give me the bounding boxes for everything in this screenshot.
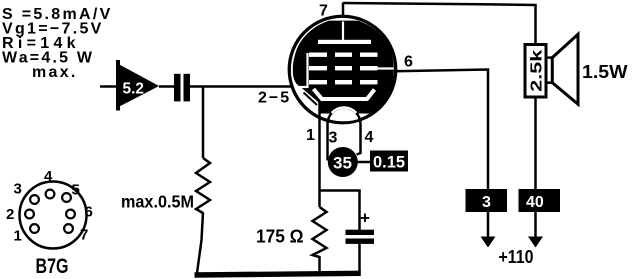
pin hole 7 (64, 224, 73, 233)
socket circle (20, 182, 87, 249)
current box 40 (anode current mA) (519, 189, 561, 212)
wire 2.5k down to 40 box (534, 97, 537, 189)
svg-text:1.5W: 1.5W (582, 62, 628, 82)
heater dome (black arc outside body) (328, 108, 361, 124)
wire 3 box to arrow (487, 212, 490, 246)
anode plate (white bar) (318, 40, 371, 44)
svg-text:+110: +110 (499, 247, 534, 267)
heater value circle 35 (328, 147, 358, 177)
wire input (100, 85, 117, 88)
anode lead from pin 7 (white) (342, 22, 344, 41)
pin hole 2 (25, 210, 34, 219)
wire triangle to capacitor (159, 85, 174, 88)
svg-text:5: 5 (72, 182, 80, 199)
wire capacitor to grid (node g1) (190, 85, 294, 88)
wire 35 to 0.15 (357, 161, 371, 164)
svg-text:3: 3 (14, 181, 22, 198)
pin hole 3 (30, 195, 39, 204)
svg-text:40: 40 (526, 194, 544, 211)
wire cathode branch to capacitor (320, 189, 361, 192)
svg-text:2: 2 (6, 206, 14, 223)
capacitor C2 electrolytic (cathode bypass) (346, 191, 375, 274)
heater dome highlight (white over body) (332, 107, 357, 113)
svg-text:7: 7 (319, 3, 328, 20)
svg-text:2−5: 2−5 (258, 90, 291, 107)
current box 3 (screen current mA) (466, 189, 508, 212)
svg-text:1: 1 (14, 228, 22, 245)
wire pin6 (screen) to right (394, 70, 488, 190)
svg-text:max.: max. (32, 64, 78, 81)
tube internal black body (293, 21, 394, 140)
screen grid lead to pin 6 (white) (377, 67, 394, 69)
input transducer (microphone) with value 5.2 (117, 60, 160, 111)
svg-text:5.2: 5.2 (123, 81, 145, 98)
svg-text:4: 4 (44, 168, 53, 185)
svg-text:6: 6 (85, 204, 93, 221)
svg-text:7: 7 (80, 227, 88, 244)
cathode hammock (white) (314, 89, 375, 99)
svg-text:0.15: 0.15 (373, 153, 405, 172)
heater leg pin 4 (357, 124, 361, 155)
pin hole 5 (62, 193, 71, 202)
wire junction down to grid resistor (202, 87, 205, 159)
svg-text:6: 6 (404, 54, 413, 71)
pin hole 1 (30, 224, 39, 233)
arrow supply left (481, 237, 496, 248)
B7G base diagram (20, 182, 87, 249)
grid lead 2-5 entry (white) (295, 86, 308, 88)
wire resistor to ground bus (197, 213, 203, 274)
svg-text:175 Ω: 175 Ω (256, 226, 304, 247)
wire 40 box to arrow (534, 212, 537, 246)
svg-text:max.0.5M: max.0.5M (121, 192, 194, 212)
svg-text:1: 1 (306, 127, 315, 144)
grid lead g1/g3 (white, left) (306, 53, 308, 88)
speaker LS 1.5W (552, 34, 578, 104)
svg-text:B7G: B7G (36, 255, 69, 278)
wire pin7 to top rail (342, 3, 345, 18)
svg-text:3: 3 (482, 194, 491, 211)
capacitor C1 (coupling) (174, 74, 190, 102)
grid g rows (white dashes) (309, 53, 378, 85)
resistor R1 max.0.5M (grid leak) (196, 158, 210, 213)
resistor R2 175 ohm (cathode bias) (313, 192, 327, 274)
svg-text:+: + (360, 209, 370, 228)
resistor R3 2.5k (output transformer primary / speaker matching) (525, 45, 546, 98)
wire cathode pin1 down (318, 101, 321, 192)
speaker terminals (546, 56, 553, 59)
wire top rail (anode supply) (343, 3, 536, 45)
svg-text:35: 35 (333, 154, 352, 173)
arrow supply right (528, 237, 543, 248)
pin hole 4 (46, 190, 55, 199)
ground bus (195, 271, 361, 278)
heater leg pin 3 (326, 124, 329, 161)
pin hole 6 (66, 210, 75, 219)
svg-text:3: 3 (329, 130, 338, 147)
svg-text:2.5k: 2.5k (528, 50, 545, 92)
heater current box 0.15 (370, 151, 408, 172)
svg-text:4: 4 (365, 129, 374, 146)
tube V1 envelope (289, 16, 396, 123)
cathode wing outline (black, outside body) (304, 93, 318, 106)
